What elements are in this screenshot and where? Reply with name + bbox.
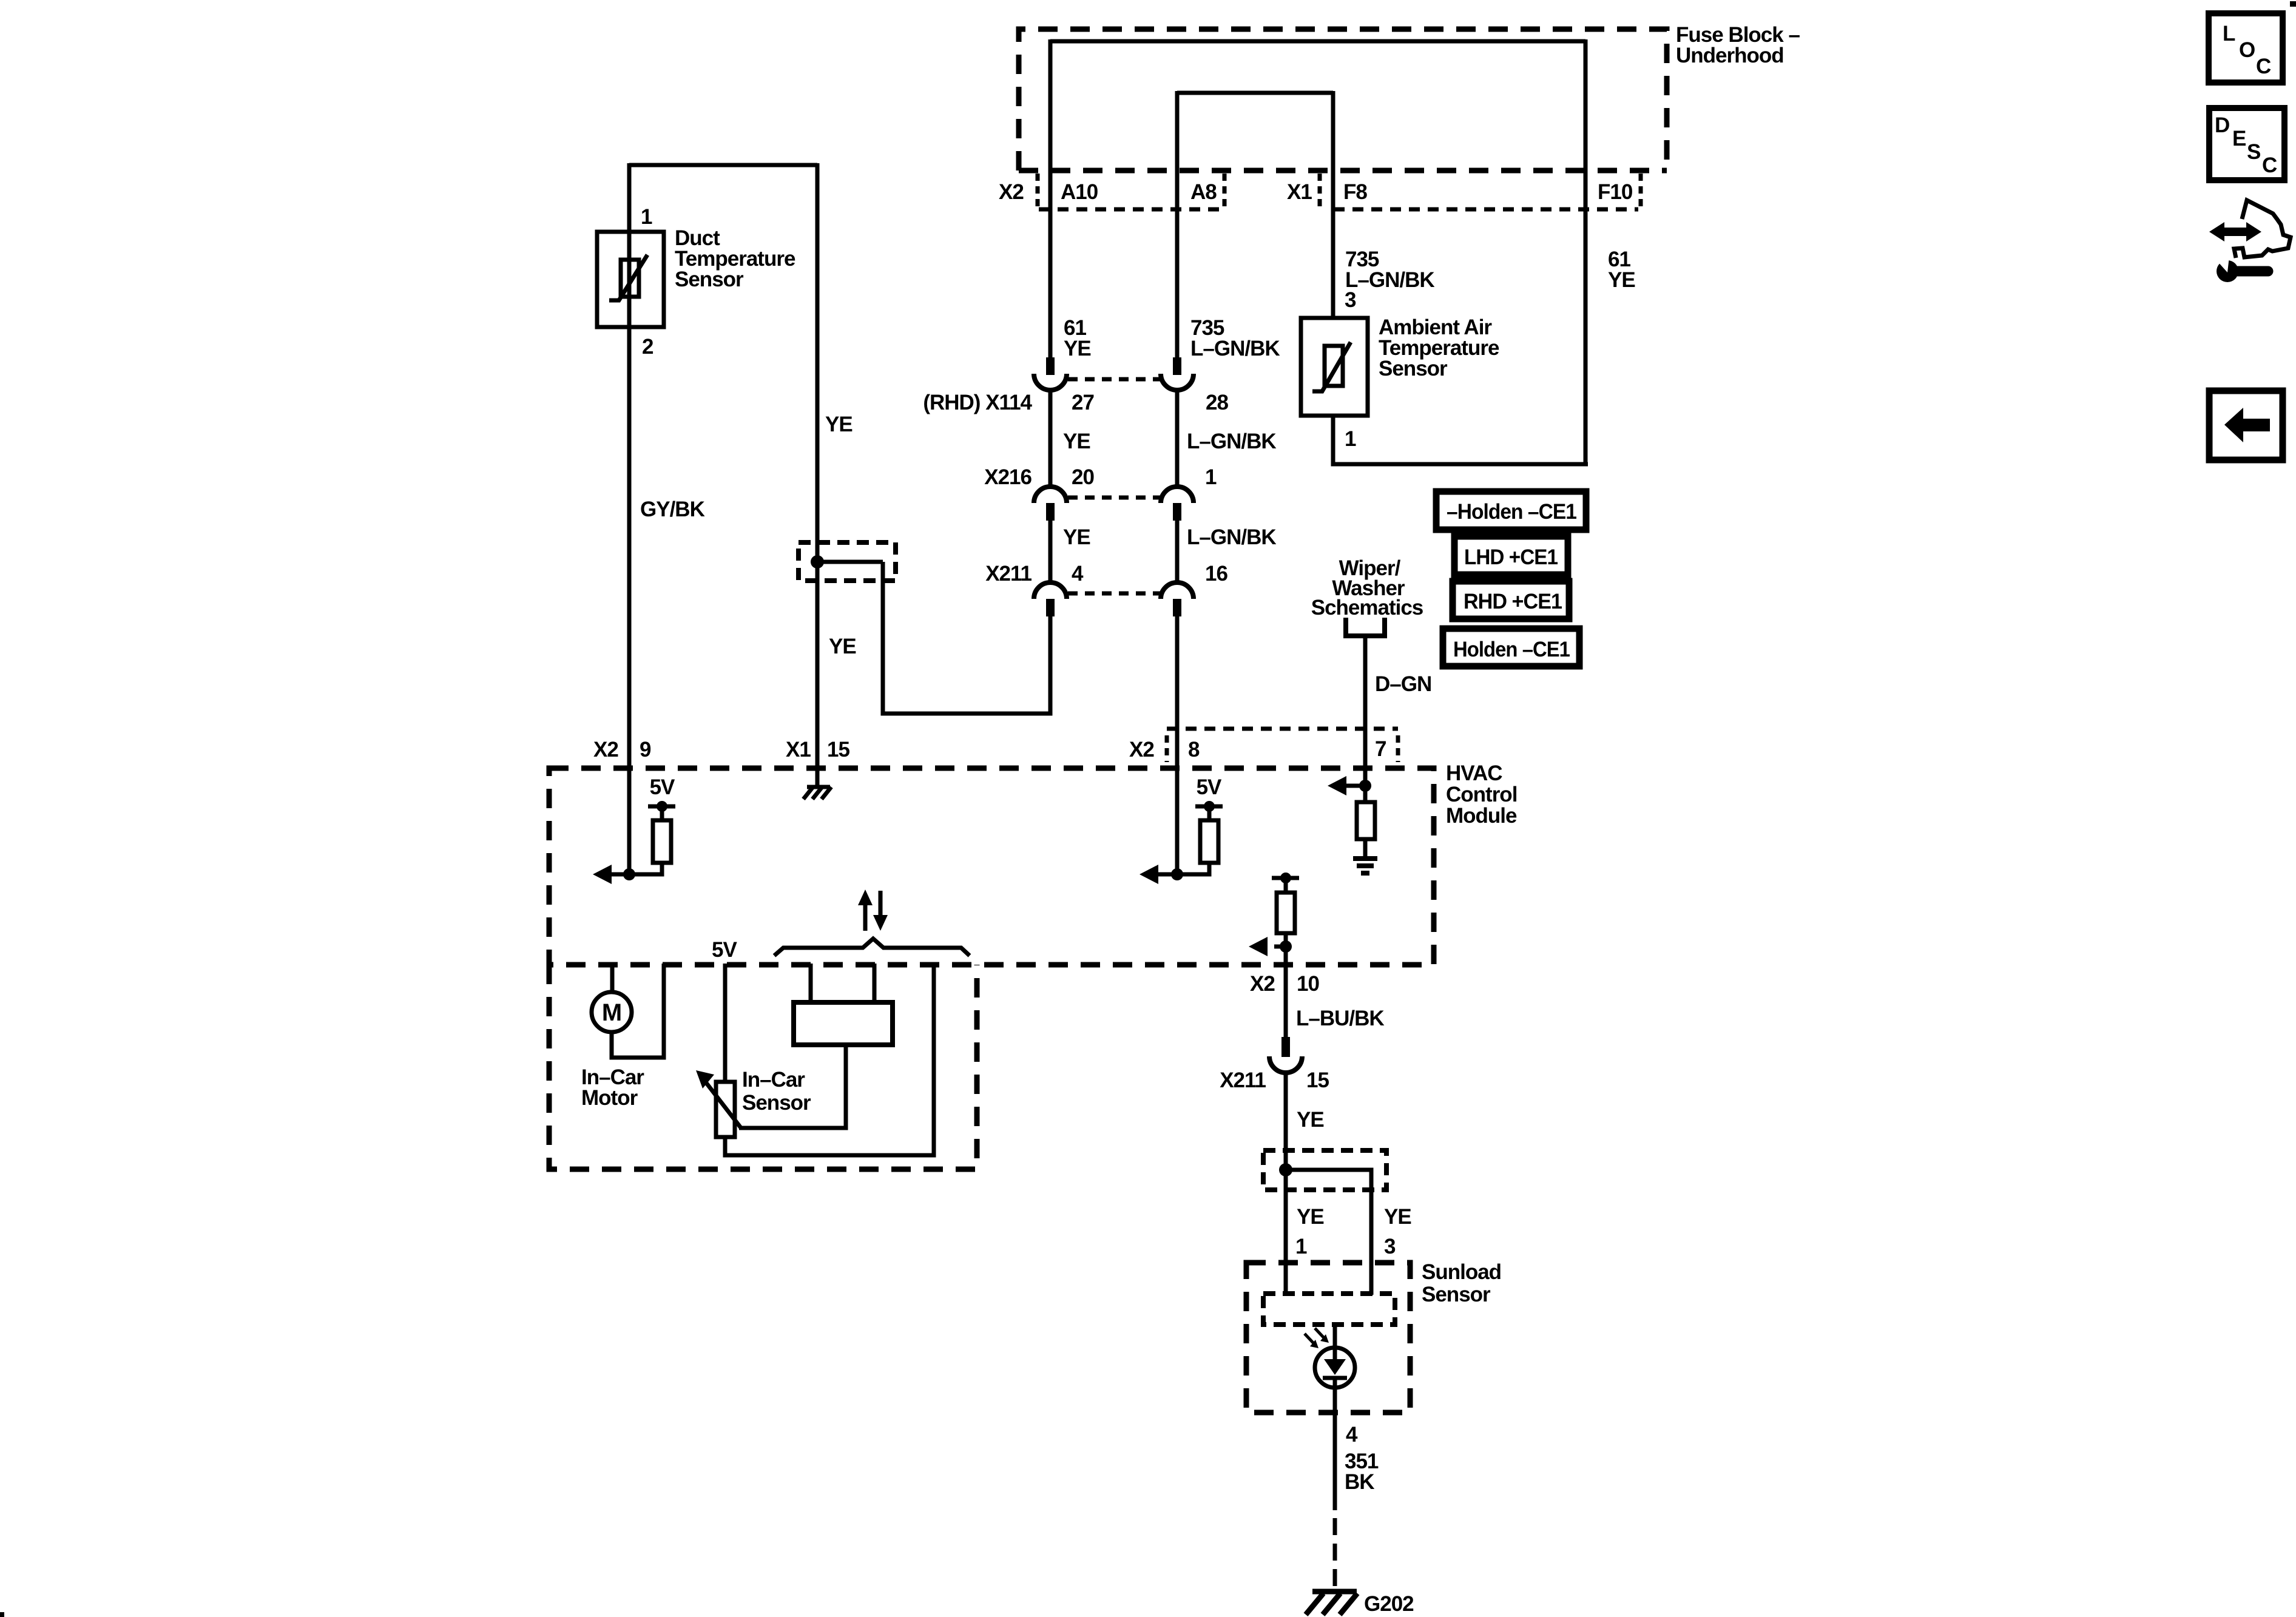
svg-text:A10: A10 — [1061, 180, 1098, 204]
X216 dashed link — [1068, 496, 1160, 500]
device box pin left — [809, 964, 813, 1002]
svg-text:L–GN/BK: L–GN/BK — [1190, 337, 1280, 360]
node dot pin8 — [1171, 868, 1183, 880]
svg-text:F8: F8 — [1343, 180, 1367, 204]
svg-text:M: M — [602, 999, 621, 1026]
wire label 61 YE (F10) — [1608, 248, 1635, 292]
svg-text:GY/BK: GY/BK — [640, 498, 705, 521]
resistor pin7 — [1357, 786, 1375, 856]
wire label 735 L-GN/BK (A8) — [1190, 316, 1280, 360]
svg-text:Underhood: Underhood — [1676, 44, 1784, 67]
duct sensor thermistor — [609, 255, 647, 300]
svg-text:27: 27 — [1072, 391, 1094, 414]
svg-text:Sensor: Sensor — [742, 1091, 811, 1115]
svg-text:YE: YE — [829, 635, 856, 658]
node dot pin7 — [1359, 780, 1371, 792]
device box — [794, 1002, 893, 1045]
svg-text:Holden –CE1: Holden –CE1 — [1453, 638, 1570, 661]
wire label 735 L-GN/BK (F8) — [1345, 248, 1434, 292]
photodiode cathode bar — [1323, 1376, 1347, 1380]
wire fuse block top loop A10 to F10 — [1050, 39, 1585, 44]
back arrow icon — [2209, 391, 2283, 460]
svg-text:1: 1 — [1295, 1235, 1307, 1258]
wire F8 to ambient sensor pin 3 — [1331, 91, 1335, 318]
svg-text:E: E — [2232, 127, 2246, 150]
svg-text:S: S — [2247, 140, 2260, 164]
wire resistor to node pin10 — [1284, 933, 1288, 947]
wire A10 vertical — [1048, 39, 1053, 358]
connector X216 pin 20 female arc — [1034, 487, 1067, 503]
svg-text:Sensor: Sensor — [675, 268, 744, 291]
light arrow 1 — [1305, 1334, 1319, 1348]
photodiode circle — [1315, 1348, 1355, 1388]
wire pot bottom return — [725, 964, 934, 1155]
HVAC pin strip separator left — [1165, 735, 1169, 762]
ground symbol X1-15 — [803, 787, 831, 799]
device box pin right — [873, 964, 877, 1002]
wire duct sensor vertical — [627, 163, 632, 877]
ambient air temperature sensor label — [1379, 316, 1499, 380]
box Holden -CE1 — [1443, 629, 1579, 666]
fuse block pin row bottom dashes — [1039, 208, 1638, 212]
duct temperature sensor label — [675, 226, 795, 291]
connector X211 pin 15 male pin — [1281, 1037, 1290, 1057]
box -Holden -CE1 — [1436, 491, 1586, 530]
X114 dashed link — [1068, 377, 1160, 382]
repair icon wrench — [2217, 257, 2268, 282]
svg-text:Schematics: Schematics — [1311, 596, 1423, 619]
potentiometer wiper diagonal — [703, 1078, 741, 1129]
node dot pin9 — [623, 868, 635, 880]
svg-text:L–GN/BK: L–GN/BK — [1345, 268, 1434, 292]
svg-text:9: 9 — [640, 738, 651, 761]
connector X211 pin 4 female arc — [1034, 582, 1067, 599]
HVAC pin strip separator right — [1396, 735, 1400, 762]
HVAC X2 pin10 label — [1250, 972, 1319, 996]
svg-text:8: 8 — [1188, 738, 1200, 761]
wiper washer schematics label — [1311, 556, 1423, 619]
wire F10 vertical down — [1584, 39, 1588, 464]
pin row separator X1 — [1318, 174, 1322, 206]
down arrow — [873, 891, 888, 931]
in-car motor circle — [592, 992, 632, 1032]
svg-text:X211: X211 — [985, 562, 1032, 586]
signal arrow pin8 — [1140, 865, 1158, 884]
svg-text:L–GN/BK: L–GN/BK — [1187, 430, 1276, 453]
page mark bottom left — [0, 1612, 4, 1617]
svg-text:X211: X211 — [1220, 1068, 1266, 1092]
wire ambient sensor pin 1 to F10 loop — [1333, 416, 1588, 464]
connector X211 pin 16 female arc — [1161, 582, 1194, 599]
in-car sensor label — [742, 1068, 811, 1115]
5V supply bar pin9 — [648, 801, 675, 820]
svg-text:X2: X2 — [999, 180, 1024, 204]
svg-text:1: 1 — [1205, 465, 1217, 489]
wire duct top loop — [629, 163, 817, 167]
svg-text:16: 16 — [1205, 562, 1227, 586]
svg-text:YE: YE — [1063, 525, 1090, 549]
splice box S1 — [799, 542, 896, 581]
5V supply bar pin10 — [1272, 873, 1299, 893]
svg-text:Sensor: Sensor — [1422, 1283, 1491, 1306]
wire X211-15 to sunload splice — [1284, 1073, 1288, 1295]
svg-text:YE: YE — [1064, 337, 1091, 360]
svg-text:G202: G202 — [1364, 1592, 1414, 1616]
svg-text:C: C — [2256, 55, 2271, 78]
ambient sensor thermistor — [1312, 342, 1351, 391]
wire YE X216 to X211 — [1048, 520, 1053, 584]
svg-text:BK: BK — [1345, 1470, 1374, 1494]
connector X211 pin 16 male pin — [1173, 599, 1181, 616]
svg-text:LHD +CE1: LHD +CE1 — [1464, 545, 1558, 569]
potentiometer body — [716, 1082, 735, 1137]
sunload splice dot — [1279, 1163, 1292, 1176]
svg-text:D–GN: D–GN — [1375, 672, 1431, 696]
svg-text:5V: 5V — [712, 938, 737, 962]
svg-text:X2: X2 — [1250, 972, 1275, 996]
svg-text:3: 3 — [1384, 1235, 1396, 1258]
node dot pin10 — [1280, 940, 1292, 953]
svg-text:3: 3 — [1345, 288, 1356, 312]
chassis ground pin7 — [1353, 859, 1377, 873]
wire strip to photodiode — [1333, 1325, 1337, 1360]
svg-text:–Holden –CE1: –Holden –CE1 — [1447, 500, 1576, 524]
sunload connector strip box — [1263, 1294, 1395, 1325]
5V supply bar pin8 — [1195, 801, 1223, 820]
wiper arrowhead — [696, 1070, 714, 1089]
svg-text:Motor: Motor — [581, 1086, 638, 1110]
repair icon double arrow — [2209, 222, 2261, 241]
svg-text:L–BU/BK: L–BU/BK — [1296, 1007, 1384, 1030]
wire label 61 YE (A10) — [1064, 316, 1091, 360]
svg-text:D: D — [2215, 113, 2229, 137]
resistor pin10 — [1277, 893, 1295, 933]
wire sunload splice branch — [1286, 1170, 1371, 1295]
wire X211 pin4 down to splice branch — [883, 562, 1050, 714]
svg-text:YE: YE — [1384, 1205, 1411, 1229]
wire YE splice vertical — [815, 163, 820, 788]
svg-text:YE: YE — [1608, 268, 1635, 292]
svg-text:2: 2 — [642, 335, 653, 359]
wire 5V to potentiometer — [723, 964, 728, 1082]
svg-text:15: 15 — [827, 738, 849, 761]
svg-text:Module: Module — [1446, 804, 1517, 828]
resistor pin8 — [1200, 820, 1218, 863]
svg-text:YE: YE — [1297, 1205, 1324, 1229]
signal arrow pin10 — [1249, 937, 1286, 956]
pin row separator X2 — [1036, 174, 1040, 206]
pin row separator A8 — [1223, 174, 1227, 206]
X211 dashed link — [1068, 592, 1160, 596]
box RHD +CE1 — [1453, 581, 1569, 619]
connector X211 pin 15 female arc — [1269, 1056, 1302, 1073]
svg-text:L–GN/BK: L–GN/BK — [1187, 525, 1276, 549]
label X211 pin15 — [1220, 1068, 1329, 1092]
svg-text:X2: X2 — [1129, 738, 1154, 761]
HVAC control module dashed box — [549, 768, 1434, 965]
light arrow 2 — [1315, 1328, 1329, 1343]
duct temperature sensor box — [597, 232, 664, 327]
svg-text:X1: X1 — [1287, 180, 1312, 204]
wire resistor to node pin9 — [610, 863, 662, 874]
wire wiper to device box — [739, 1045, 846, 1128]
box LHD +CE1 — [1454, 536, 1568, 575]
signal arrow pin7 — [1328, 776, 1365, 795]
HVAC pin strip top dashed line — [1167, 727, 1398, 731]
svg-text:Control: Control — [1446, 783, 1517, 806]
wire L-GN/BK X216 to X211 — [1175, 520, 1180, 584]
wire YE X114 to X216 — [1048, 390, 1053, 488]
photodiode triangle — [1324, 1359, 1346, 1375]
svg-text:L: L — [2223, 22, 2235, 46]
svg-text:4: 4 — [1072, 562, 1084, 586]
in-car motor lead bottom loop — [612, 964, 664, 1058]
repair icon panel outline — [2234, 200, 2291, 258]
ambient air temperature sensor box — [1301, 318, 1368, 416]
connector X114 pin 27 male pin — [1046, 357, 1055, 375]
connector X216 pin 20 male pin — [1046, 503, 1055, 521]
wire fuse block loop A8 to F8 — [1177, 91, 1333, 95]
connector X114 pin 28 male pin — [1173, 357, 1181, 375]
sunload sensor outer box — [1246, 1263, 1410, 1413]
svg-text:HVAC: HVAC — [1446, 761, 1502, 785]
svg-text:X2: X2 — [593, 738, 618, 761]
svg-text:10: 10 — [1297, 972, 1319, 996]
svg-text:F10: F10 — [1598, 180, 1633, 204]
svg-text:1: 1 — [641, 205, 652, 229]
connector X211 pin 4 male pin — [1046, 599, 1055, 616]
svg-text:O: O — [2239, 38, 2255, 62]
svg-text:15: 15 — [1306, 1068, 1329, 1092]
in-car motor lead left — [610, 964, 615, 993]
svg-text:Sunload: Sunload — [1422, 1260, 1501, 1284]
svg-text:YE: YE — [1297, 1108, 1324, 1132]
svg-text:7: 7 — [1375, 737, 1386, 761]
svg-text:YE: YE — [825, 413, 853, 436]
connector X114 pin 28 female arc — [1161, 374, 1194, 390]
wire resistor to node pin8 — [1156, 863, 1209, 874]
wire A8 vertical — [1175, 91, 1180, 358]
svg-text:A8: A8 — [1190, 180, 1217, 204]
wire L-GN/BK X114 to X216 — [1175, 390, 1180, 488]
svg-text:1: 1 — [1345, 427, 1356, 451]
svg-text:20: 20 — [1072, 465, 1094, 489]
HVAC label — [1446, 761, 1517, 828]
svg-text:(RHD) X114: (RHD) X114 — [923, 391, 1032, 414]
dashed wire to G202 — [1333, 1518, 1337, 1593]
wire splice branch horizontal — [817, 560, 883, 564]
signal arrow pin9 — [593, 865, 612, 884]
wire L-GN/BK X211 to HVAC pin 8 — [1175, 616, 1180, 877]
svg-text:5V: 5V — [1197, 775, 1222, 799]
in-car sub box — [549, 965, 977, 1169]
svg-text:C: C — [2262, 154, 2277, 177]
wire photodiode down — [1333, 1378, 1337, 1510]
splice junction dot — [811, 555, 824, 569]
ground G202 — [1306, 1592, 1357, 1615]
svg-text:X1: X1 — [786, 738, 811, 761]
sunload sensor label — [1422, 1260, 1501, 1306]
wire D-GN — [1363, 636, 1368, 788]
page mark top right — [2290, 1, 2296, 7]
svg-text:YE: YE — [1063, 430, 1090, 453]
svg-text:5V: 5V — [650, 775, 675, 799]
up arrow — [858, 890, 873, 931]
fuse block underhood dashed box — [1019, 29, 1667, 170]
wiper washer off-page bracket — [1346, 618, 1385, 636]
svg-text:4: 4 — [1346, 1423, 1358, 1447]
svg-text:28: 28 — [1206, 391, 1228, 414]
svg-text:RHD +CE1: RHD +CE1 — [1464, 590, 1562, 613]
connector X114 pin 27 female arc — [1034, 374, 1067, 390]
fuse block label — [1676, 23, 1800, 67]
svg-text:X216: X216 — [984, 465, 1032, 489]
LOC icon box — [2209, 13, 2283, 83]
svg-text:Sensor: Sensor — [1379, 357, 1448, 380]
connector X216 pin 1 male pin — [1173, 503, 1181, 521]
DESC icon box — [2209, 108, 2284, 180]
connector X216 pin 1 female arc — [1161, 487, 1194, 503]
svg-text:In–Car: In–Car — [742, 1068, 805, 1092]
sunload splice box — [1263, 1150, 1386, 1190]
wire pin10 down to X211 — [1284, 947, 1288, 1037]
in-car motor label — [581, 1065, 644, 1110]
brace over device pins — [774, 939, 970, 956]
wire label 351 BK — [1345, 1450, 1379, 1494]
pin row separator F10 — [1639, 174, 1643, 206]
resistor pin9 — [653, 820, 671, 863]
